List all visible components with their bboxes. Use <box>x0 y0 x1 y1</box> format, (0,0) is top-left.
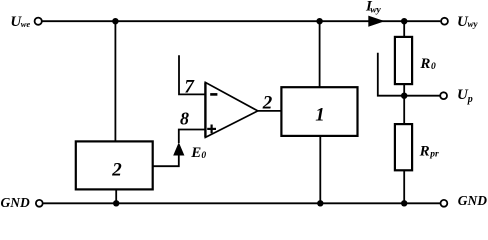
block 2 (reference source) <box>76 141 153 189</box>
label U_we <box>10 14 30 30</box>
svg-text:E: E <box>190 145 201 161</box>
wire R0 bottom lead to node Up <box>403 84 405 96</box>
wire top rail to block 1 <box>319 21 321 87</box>
source E0 arrow <box>173 142 184 155</box>
label GND left <box>1 195 30 210</box>
svg-text:2: 2 <box>111 160 122 181</box>
node junction ground below block 1 <box>317 200 323 206</box>
wire R0 top lead <box>403 21 405 37</box>
wire node Up to terminal <box>404 95 439 97</box>
wire block 1 bottom to ground rail <box>319 136 321 203</box>
wire op-amp output to block 1 <box>258 110 282 112</box>
svg-text:R: R <box>419 144 430 160</box>
svg-text:0: 0 <box>431 62 436 72</box>
label Iwy <box>365 0 382 16</box>
pin 7 label <box>184 76 195 97</box>
label GND right <box>458 193 487 208</box>
svg-text:R: R <box>419 56 430 72</box>
resistor R0 <box>395 37 412 84</box>
wire Rpr bottom lead <box>403 170 405 203</box>
op-amp comparator <box>205 82 257 137</box>
svg-text:1: 1 <box>315 105 325 126</box>
node junction ground below block 2 <box>113 200 119 206</box>
wire feedback stub from node Up <box>378 53 404 96</box>
wire E0 to op-amp plus input pin 8 <box>179 130 206 144</box>
current arrow Iwy <box>368 16 385 27</box>
label Rpr <box>419 144 439 160</box>
pin 8 label <box>180 109 189 129</box>
svg-text:8: 8 <box>180 109 189 129</box>
node junction top right <box>401 18 407 24</box>
svg-text:GND: GND <box>1 195 30 209</box>
terminal U_p <box>440 92 447 99</box>
wire top rail <box>42 20 440 22</box>
node junction ground right <box>401 200 407 206</box>
terminal U_wy <box>441 18 448 25</box>
svg-text:wy: wy <box>468 19 479 29</box>
label R0 <box>419 56 436 72</box>
label E0 <box>190 145 206 161</box>
svg-text:2: 2 <box>262 93 273 114</box>
svg-text:7: 7 <box>184 76 195 97</box>
wire op-amp minus input pin 7 stub <box>179 55 205 94</box>
svg-text:0: 0 <box>201 151 206 161</box>
terminal GND right <box>441 200 448 207</box>
terminal U_we <box>35 18 42 25</box>
wire block 2 output to E0 <box>153 155 179 166</box>
node junction top above block 1 <box>316 18 322 24</box>
svg-text:wy: wy <box>370 6 381 16</box>
label U_wy <box>457 14 479 30</box>
wire ground rail <box>43 202 440 204</box>
label U_p <box>457 87 473 105</box>
svg-text:GND: GND <box>458 193 487 208</box>
wire block 2 bottom to ground rail <box>115 189 117 203</box>
wire top rail to block 2 <box>114 21 116 141</box>
wire Rpr top lead <box>403 96 405 124</box>
svg-text:p: p <box>467 94 473 105</box>
svg-text:pr: pr <box>429 150 439 160</box>
svg-text:we: we <box>21 19 31 29</box>
block 1 (output stage) <box>281 87 357 136</box>
terminal GND left <box>36 200 43 207</box>
node Up junction <box>401 93 407 99</box>
node junction top above block 2 <box>112 18 118 24</box>
pin 2 label <box>262 93 273 114</box>
resistor Rpr <box>395 124 412 170</box>
